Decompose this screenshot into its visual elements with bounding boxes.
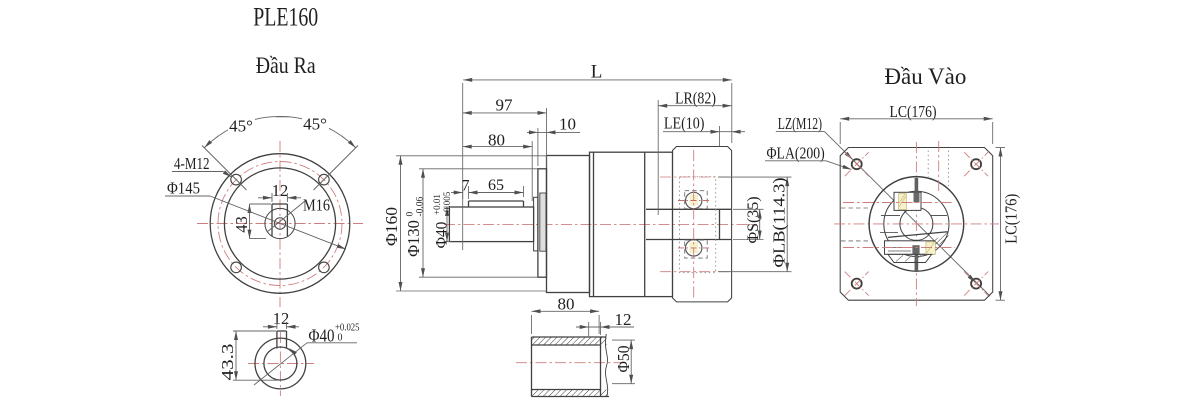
svg-text:LE(10): LE(10) — [664, 113, 705, 132]
tube detail centerline — [516, 362, 621, 364]
dim LE extension — [719, 126, 721, 147]
svg-text:LZ(M12): LZ(M12) — [778, 114, 822, 133]
left view dim 43 — [232, 204, 252, 239]
dim LC(176) right — [999, 148, 1021, 301]
dim LR(82) text — [675, 88, 716, 107]
dim 80 — [463, 145, 533, 149]
detail phi40 leader — [254, 343, 357, 385]
svg-text:0: 0 — [406, 212, 416, 217]
dim 65 — [469, 186, 524, 199]
left view 45deg label left — [228, 117, 255, 136]
tube bottom hatch band — [532, 390, 610, 397]
left view hub circle — [265, 208, 295, 238]
svg-text:-0.06: -0.06 — [416, 196, 426, 216]
right view dotted hidden column 1 — [927, 151, 929, 178]
svg-text:12: 12 — [615, 310, 632, 329]
dim 10 text — [559, 114, 576, 133]
lower tap hole circle — [686, 240, 702, 256]
detail section vertical centerline — [279, 332, 281, 396]
lower screw slot dark — [912, 245, 919, 254]
flange inner band — [540, 193, 546, 251]
detail outer circle phi50 — [255, 338, 306, 389]
label LZ(M12) — [778, 114, 822, 133]
right view hole centermarks on LA circle — [845, 152, 988, 295]
svg-text:L: L — [591, 61, 603, 82]
left view shaft bore circle — [274, 218, 285, 229]
tube dim phi50 extensions — [612, 340, 635, 384]
detail keyway slot — [277, 331, 287, 349]
left view arc top tick — [276, 116, 289, 118]
dim LR left extension — [657, 100, 659, 215]
left view dim 12 lines — [258, 193, 301, 202]
dim phiLB(114.3) — [770, 177, 790, 272]
dim 80 right extension — [531, 141, 533, 201]
input block vertical centerline — [693, 150, 695, 300]
dim phi160 — [382, 156, 403, 291]
dim L text — [591, 61, 603, 82]
svg-text:ΦLA(200): ΦLA(200) — [767, 143, 825, 162]
svg-text:97: 97 — [496, 96, 514, 115]
svg-text:Đầu Vào: Đầu Vào — [884, 64, 966, 89]
svg-text:43.3: 43.3 — [218, 344, 237, 381]
right view coupling outer circle — [884, 191, 949, 256]
lower tap hole yellow patch — [690, 242, 699, 253]
svg-text:Φ40: Φ40 — [434, 221, 451, 248]
gearbox body section 2 — [590, 152, 673, 296]
input bore upper line — [646, 208, 732, 210]
clamp wedge line — [888, 232, 948, 238]
LZ leader line — [776, 132, 990, 296]
LB lower centerline — [660, 271, 731, 273]
lower screw centerline — [843, 247, 955, 249]
tube left face — [531, 337, 533, 397]
LA leader arrowhead on bolt circle — [968, 275, 976, 283]
upper tap hole yellow patch — [690, 195, 699, 206]
svg-text:LC(176): LC(176) — [1001, 194, 1020, 244]
right view square plate — [840, 148, 993, 301]
left view outer circle (flange OD) — [210, 154, 350, 294]
left view inner circle — [224, 168, 335, 279]
dim LC top extensions — [840, 122, 993, 144]
upper screw slot dark — [914, 192, 920, 202]
dim LC(176) top text — [890, 102, 937, 121]
tube top hatch band — [532, 337, 607, 345]
dim L — [463, 78, 732, 82]
detail dim 12 text — [273, 309, 290, 328]
dim phiLB extensions — [718, 177, 792, 272]
svg-text:Φ145: Φ145 — [167, 179, 200, 198]
left view 45deg radial line upper-right — [314, 146, 359, 191]
svg-text:ΦS(35): ΦS(35) — [745, 197, 762, 244]
input pilot recess line — [719, 209, 721, 239]
detail bore circle phi40 — [264, 347, 297, 380]
tube break wavy line — [605, 334, 607, 397]
svg-text:M16: M16 — [303, 196, 330, 215]
svg-text:LC(176): LC(176) — [890, 102, 937, 121]
right view hidden bore line lower — [841, 240, 870, 242]
tube dim 12 extensions — [589, 322, 601, 337]
left view vertical centerline — [279, 141, 281, 307]
upper clamp screw body — [894, 192, 921, 210]
dim 7 text — [462, 178, 470, 195]
lower screw internal lines — [888, 248, 911, 252]
dim LR(82) — [658, 104, 731, 108]
svg-text:Φ130: Φ130 — [404, 220, 423, 257]
tube dim 80 text — [558, 294, 575, 313]
upper tap hole centerline — [678, 200, 710, 202]
left view label phi145 — [167, 179, 200, 198]
left view 4-M12 leader — [172, 170, 232, 177]
svg-text:80: 80 — [558, 294, 575, 313]
svg-text:65: 65 — [488, 177, 504, 194]
tube dim 80 — [532, 309, 600, 313]
svg-text:10: 10 — [559, 114, 576, 133]
dim LE(10) — [663, 130, 745, 134]
dim 97 — [463, 111, 547, 115]
left view bolt circle phi145 — [218, 162, 342, 286]
svg-text:45°: 45° — [303, 115, 327, 134]
tube dim 12 text — [615, 310, 632, 329]
input block — [673, 147, 732, 302]
svg-text:PLE160: PLE160 — [253, 2, 318, 31]
lower screw yellow section — [926, 242, 935, 255]
svg-text:45°: 45° — [229, 117, 253, 136]
right view short pink column — [938, 141, 940, 192]
upper screw centerline — [843, 202, 952, 204]
gearbox body section 1 — [547, 156, 590, 293]
shaft shoulder — [534, 197, 538, 251]
svg-text:43: 43 — [232, 216, 251, 233]
svg-text:Φ160: Φ160 — [382, 207, 401, 246]
dim 80 text — [488, 131, 505, 150]
left view label 4-M12 — [174, 154, 210, 173]
detail phi40 label — [309, 322, 360, 345]
clamp hatched wedge — [928, 232, 950, 248]
upper tap hole dashed box — [685, 191, 708, 209]
dim LC right extensions — [996, 148, 1006, 301]
clamp split line left — [881, 215, 947, 217]
detail dim 43.3 extension lines — [233, 331, 280, 380]
dim 97 right extension — [546, 108, 548, 168]
tube end line — [600, 337, 602, 397]
right view corner holes LZ — [852, 159, 981, 288]
dim phi40 shaft ticks — [444, 207, 452, 242]
left view 45deg radial line upper-left — [202, 146, 247, 191]
dim phiS(35) extensions — [733, 209, 764, 239]
right view hidden bore line upper — [841, 207, 870, 209]
right view vertical centerline — [915, 142, 917, 306]
lower tap hole centerline — [678, 247, 710, 249]
LB circle dotted square — [680, 177, 716, 273]
body section joint double line — [593, 152, 595, 296]
tube dim phi50 — [614, 340, 633, 384]
svg-text:Đầu Ra: Đầu Ra — [256, 53, 316, 78]
left view dim 12 text — [272, 181, 289, 200]
shaft keyway strip — [469, 201, 524, 207]
detail dim 12 lines — [263, 322, 299, 329]
left view 45deg label right — [302, 115, 329, 134]
svg-text:Φ40: Φ40 — [309, 325, 335, 345]
svg-text:-0.005: -0.005 — [442, 191, 452, 215]
dim LC(176) top — [840, 117, 993, 121]
tube dim 80 extensions — [532, 315, 600, 334]
lower clamp trapezoid — [888, 254, 932, 262]
svg-text:4-M12: 4-M12 — [174, 154, 210, 173]
svg-text:12: 12 — [272, 181, 289, 200]
middle view main centerline — [444, 223, 757, 225]
clamp upper slit — [915, 178, 919, 193]
input bore lower line — [646, 239, 732, 241]
dim phi130 — [404, 169, 426, 277]
left view 4 bolt holes M12 — [231, 174, 329, 272]
dim phiS(35) — [745, 197, 762, 244]
title PLE160 — [253, 2, 318, 31]
dim 10 — [527, 130, 580, 134]
upper tap hole circle — [686, 192, 702, 208]
dim LE(10) text — [664, 113, 705, 132]
LB upper centerline — [660, 176, 731, 178]
lower clamp screw body — [885, 241, 935, 255]
tube dim 12 — [576, 325, 634, 329]
left view dim 43 extension lines — [250, 204, 272, 239]
LA leader line — [765, 161, 852, 170]
svg-text:0: 0 — [338, 332, 343, 343]
dim 97 text — [496, 96, 514, 115]
left view phi145 leader — [165, 196, 346, 249]
upper screw yellow section — [899, 194, 907, 210]
label Dau Vao (input side) — [884, 64, 966, 89]
left view keyway rectangle — [272, 204, 287, 236]
dim phi160 extensions — [396, 156, 547, 291]
label phiLA(200) — [767, 143, 825, 162]
output flange plate phi130 — [538, 169, 547, 277]
left view 45deg dimension arc — [204, 116, 355, 147]
right view bore circle — [900, 207, 933, 240]
detail dim 43.3 — [218, 331, 238, 381]
svg-text:+0.01: +0.01 — [432, 194, 442, 215]
clamp split line lower left — [880, 232, 898, 234]
clamp lower slit — [915, 255, 919, 272]
dim L left extension — [462, 83, 464, 250]
left view M16 leader line — [267, 201, 305, 232]
svg-text:ΦLB(114.3): ΦLB(114.3) — [770, 178, 789, 268]
svg-text:LR(82): LR(82) — [675, 88, 716, 107]
label Dau Ra (output side) — [256, 53, 316, 78]
dim 10 left extension — [537, 128, 539, 166]
dim L right extension — [731, 83, 733, 143]
left view label M16 — [303, 196, 330, 215]
left view horizontal centerline — [197, 223, 363, 225]
body internal joint line — [644, 152, 646, 296]
lower tap hole dashed box — [685, 240, 708, 258]
detail section horizontal centerline — [248, 363, 314, 365]
right view pilot circle phiLB — [869, 177, 964, 272]
dim 65 text — [488, 177, 504, 194]
output shaft — [449, 207, 533, 242]
dim 7 — [451, 186, 463, 199]
right view dotted hidden column 2 — [948, 151, 950, 187]
dim phi40 shaft — [432, 191, 452, 248]
svg-text:Φ50: Φ50 — [614, 346, 633, 373]
dim phi130 extensions — [419, 169, 538, 277]
right view horizontal centerline — [834, 223, 999, 225]
